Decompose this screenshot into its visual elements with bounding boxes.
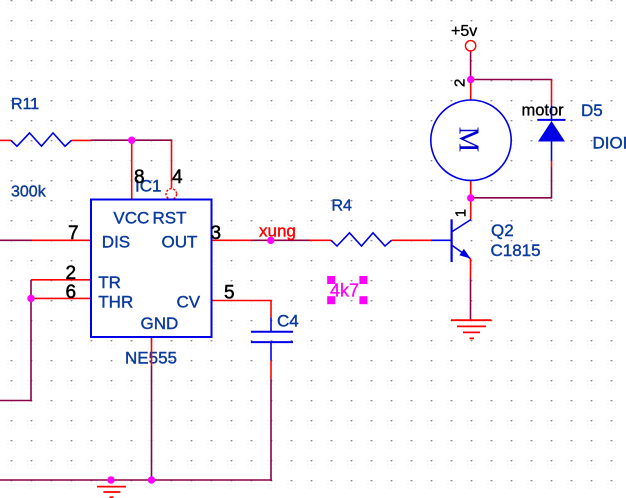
svg-text:RST: RST <box>153 208 187 227</box>
svg-text:VCC: VCC <box>113 208 149 227</box>
svg-text:3: 3 <box>211 223 222 244</box>
svg-text:300k: 300k <box>11 184 47 201</box>
svg-text:2: 2 <box>452 79 469 87</box>
svg-text:DIS: DIS <box>102 233 130 252</box>
svg-text:DIODE: DIODE <box>593 133 626 152</box>
svg-text:TR: TR <box>98 273 121 292</box>
svg-text:6: 6 <box>66 282 77 303</box>
svg-text:xung: xung <box>259 222 296 241</box>
svg-text:+5v: +5v <box>451 23 477 40</box>
svg-text:D5: D5 <box>581 101 603 120</box>
svg-text:M: M <box>453 127 485 153</box>
svg-text:motor: motor <box>522 102 565 120</box>
svg-text:OUT: OUT <box>162 233 198 252</box>
svg-text:4k7: 4k7 <box>330 281 359 301</box>
svg-text:C4: C4 <box>277 312 299 331</box>
svg-text:7: 7 <box>68 223 79 244</box>
svg-text:GND: GND <box>141 314 179 333</box>
svg-text:C1815: C1815 <box>491 241 541 260</box>
svg-text:R4: R4 <box>332 198 353 215</box>
svg-text:CV: CV <box>177 293 201 312</box>
svg-text:2: 2 <box>66 263 77 284</box>
svg-text:1: 1 <box>452 209 469 217</box>
svg-text:THR: THR <box>98 293 133 312</box>
svg-text:R11: R11 <box>11 96 39 113</box>
svg-text:Q2: Q2 <box>491 221 514 240</box>
svg-text:5: 5 <box>224 282 235 303</box>
svg-text:8: 8 <box>134 167 145 188</box>
svg-text:4: 4 <box>172 167 183 188</box>
